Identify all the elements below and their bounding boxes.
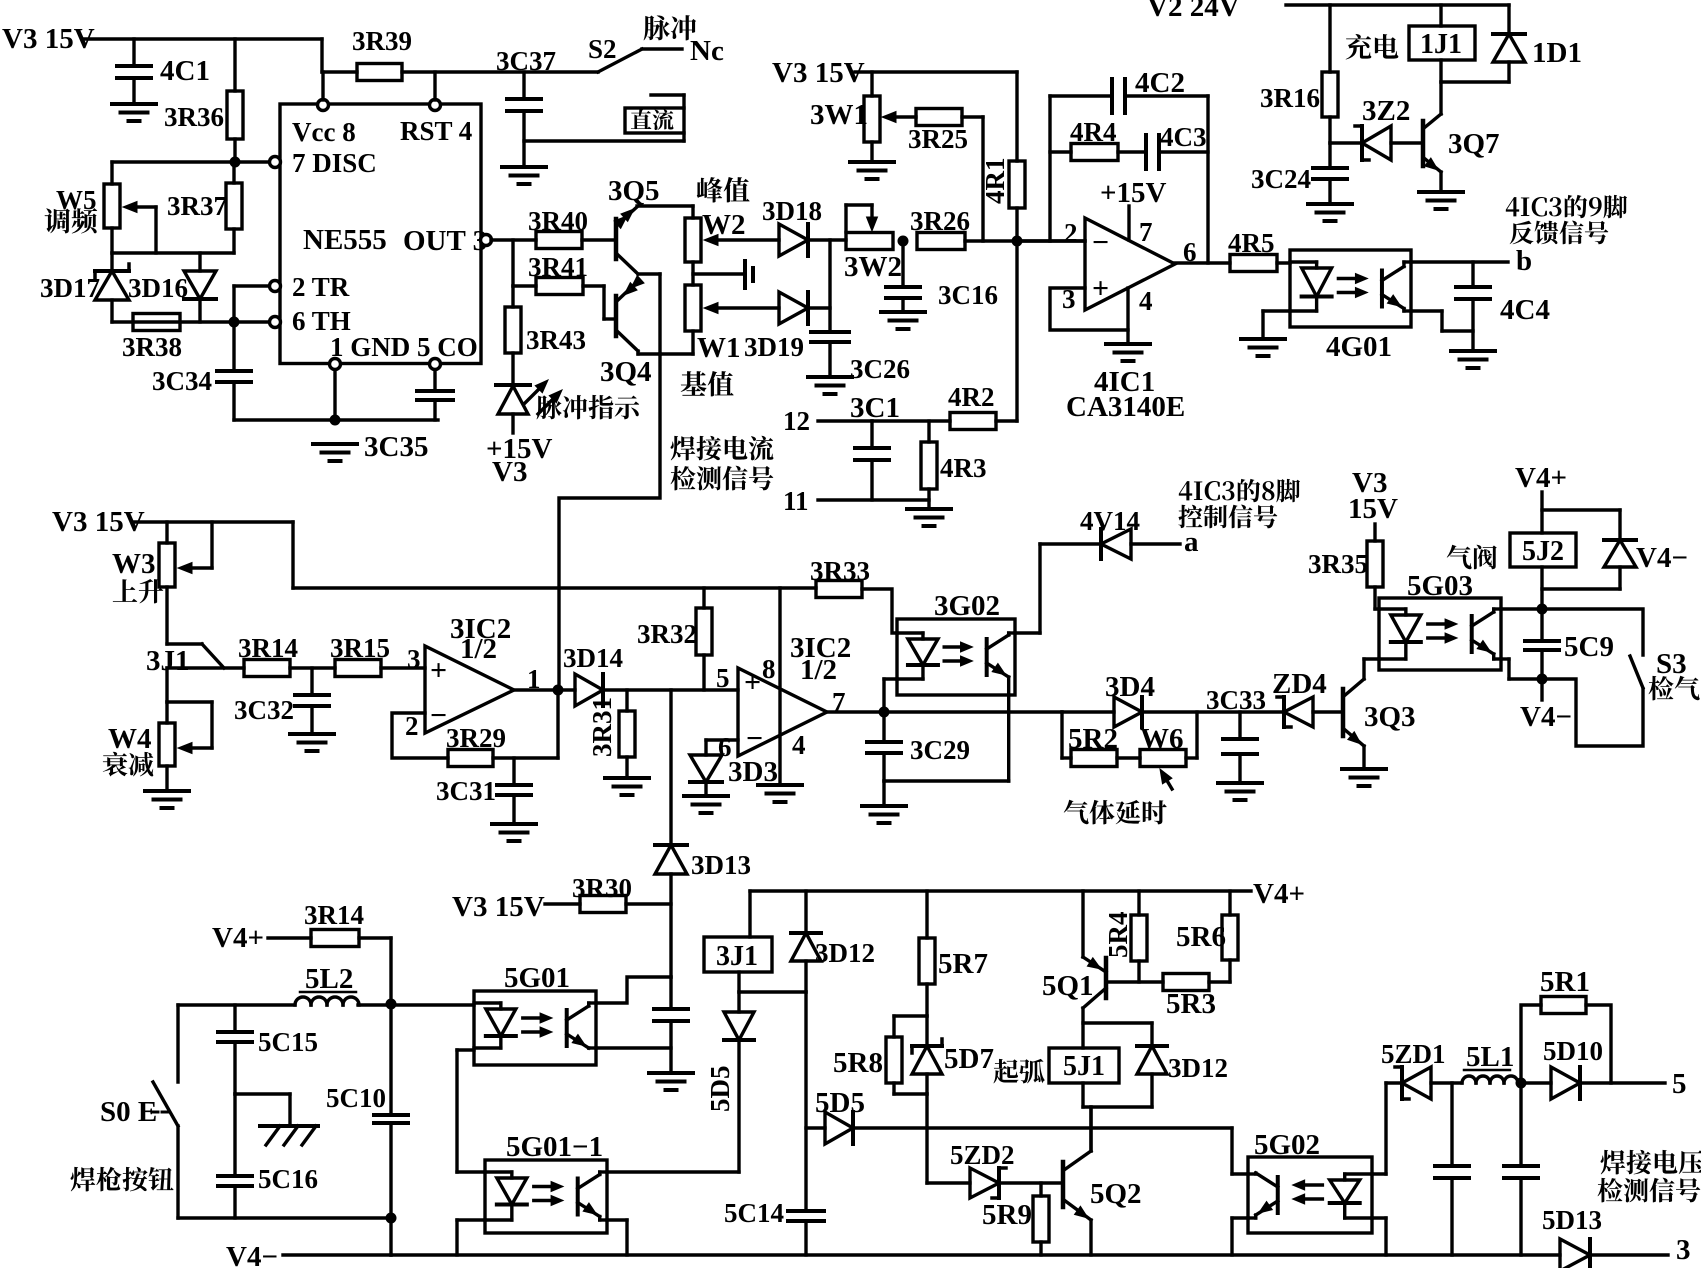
wire 5D13 to terminal 3 <box>1590 1253 1668 1256</box>
label control signal line1 <box>1179 479 1300 502</box>
ground below 3C29 <box>862 806 906 823</box>
wire 12 bus <box>872 419 950 422</box>
node junction TH/3C34 <box>229 317 240 328</box>
transistor 5Q2 <box>1063 1107 1142 1255</box>
feedback right rail <box>1206 96 1209 263</box>
wire 3D4 cathode to 3C33 <box>1142 710 1284 713</box>
transistor 5Q1 (PNP) <box>1042 891 1106 1048</box>
svg-text:3Q7: 3Q7 <box>1448 128 1500 160</box>
wire V3 top rail <box>84 37 322 40</box>
wire 3C29 bottom to 3G02 emitter <box>884 695 1009 781</box>
svg-text:3C26: 3C26 <box>850 354 910 384</box>
svg-text:V4+: V4+ <box>1253 878 1305 910</box>
label welding current line1 <box>671 436 774 461</box>
capacitor 3C33 <box>1206 685 1266 783</box>
ground below 3Q3 <box>1342 769 1386 786</box>
svg-text:4R2: 4R2 <box>948 382 995 412</box>
optocoupler 5G02 <box>1248 1129 1372 1233</box>
svg-text:5C14: 5C14 <box>724 1198 784 1228</box>
svg-text:3R35: 3R35 <box>1308 549 1368 579</box>
wiper arrow W2 <box>704 235 779 246</box>
svg-text:5: 5 <box>716 663 730 693</box>
svg-text:4C2: 4C2 <box>1135 67 1185 99</box>
svg-text:3Q3: 3Q3 <box>1364 701 1416 733</box>
svg-text:OUT 3: OUT 3 <box>403 225 487 257</box>
net label V4+ (gas valve) <box>1515 462 1567 494</box>
label welding gun button <box>71 1167 174 1192</box>
label pulse indicator <box>537 395 640 419</box>
capacitor 3C16 <box>886 241 998 312</box>
svg-text:4R5: 4R5 <box>1228 228 1275 258</box>
svg-text:W1: W1 <box>697 332 741 364</box>
resistor 3R16 <box>1260 5 1338 143</box>
svg-text:3R31: 3R31 <box>587 697 617 757</box>
capacitor 5C14 <box>724 1198 824 1255</box>
net label V3 15V (top-left) <box>2 23 95 55</box>
svg-text:2: 2 <box>405 711 419 741</box>
wire ground bus under NE555 <box>234 418 438 421</box>
ground below 3C32 <box>290 734 334 751</box>
label peak <box>697 177 750 202</box>
svg-text:3D18: 3D18 <box>762 196 822 226</box>
wire 3R41 to 3Q4 base <box>583 286 616 319</box>
ground 3IC2 pin4 <box>758 785 802 802</box>
ground below collector cap <box>649 1073 693 1090</box>
wire 5J2 bottom <box>1540 567 1543 609</box>
capacitor 3C26 <box>811 332 910 384</box>
svg-text:5R4: 5R4 <box>1103 912 1133 959</box>
svg-text:4R3: 4R3 <box>940 453 987 483</box>
potentiometer W3 <box>112 522 212 644</box>
inductor 5L2 <box>295 963 359 1005</box>
diode 5D5 (horizontal) <box>806 1087 865 1144</box>
wire 3D12 line down to 5C14 <box>804 992 807 1211</box>
svg-text:7: 7 <box>1139 217 1153 247</box>
wire 5L2 to 5G01 <box>358 1003 474 1006</box>
capacitor 5C15 <box>218 1005 318 1094</box>
resistor 3R14 (gun) <box>304 900 364 947</box>
net label +15V V3 <box>486 433 553 488</box>
net label V4- (below 5C9) <box>1520 679 1572 733</box>
capacitor 3C37 <box>496 46 556 167</box>
svg-text:CA3140E: CA3140E <box>1066 391 1185 423</box>
svg-text:3: 3 <box>407 644 421 674</box>
ground below 3R31 <box>605 778 649 795</box>
wiper arrow W1 <box>704 303 779 314</box>
flyback diode 3D12 across 5J1 <box>1083 1023 1228 1151</box>
transistor 3Q4 <box>600 276 652 388</box>
svg-text:S3: S3 <box>1656 648 1687 680</box>
label feedback signal line2 <box>1510 221 1609 245</box>
node junction 4C4 <box>1471 262 1474 287</box>
node junction 5C9 bottom <box>1537 674 1548 685</box>
svg-text:3R33: 3R33 <box>810 556 870 586</box>
zener 5D7 <box>912 1016 994 1094</box>
resistor 5R6 <box>1176 891 1238 960</box>
label CA3140E <box>1066 391 1185 423</box>
ground below 4C4 <box>1451 351 1495 368</box>
diode 3D14 <box>563 643 623 706</box>
svg-text:3C37: 3C37 <box>496 46 556 76</box>
node junction bottom <box>386 1213 397 1224</box>
switch S3 loop <box>1542 609 1643 746</box>
svg-text:5G03: 5G03 <box>1407 570 1473 602</box>
svg-text:4R1: 4R1 <box>980 158 1010 205</box>
resistor 3R30 <box>545 873 671 913</box>
LED pulse indicator <box>496 353 562 433</box>
wire TH bus <box>112 320 270 323</box>
wire welding current signal <box>559 354 660 690</box>
wire 3R15 to pin3 <box>381 666 425 669</box>
capacitor 4C4 <box>1456 287 1550 351</box>
wire 3IC2 pin2 feedback loop <box>392 713 448 758</box>
node junction GND pin <box>330 415 341 426</box>
label gas check <box>1649 676 1700 701</box>
resistor 3R41 <box>513 252 588 295</box>
svg-text:V4−: V4− <box>1520 701 1572 733</box>
transistor 3Q3 <box>1343 659 1416 769</box>
svg-text:4V14: 4V14 <box>1080 506 1140 536</box>
svg-text:3D19: 3D19 <box>744 332 804 362</box>
wire 3D18 cathode <box>808 238 846 241</box>
svg-text:5R7: 5R7 <box>938 948 988 980</box>
resistor 3R31 <box>587 690 635 778</box>
label pulse mode <box>644 15 697 40</box>
svg-text:4G01: 4G01 <box>1326 331 1392 363</box>
resistor 5R3 <box>1163 974 1216 1021</box>
wire Vcc stem <box>322 39 357 100</box>
label gas delay <box>1064 800 1167 825</box>
wire 3D19 cathode <box>808 306 830 309</box>
node junction output/current-signal <box>553 685 564 696</box>
wire 3J1 top to rail <box>748 891 751 937</box>
svg-text:W6: W6 <box>1140 723 1184 755</box>
diode 1D1 <box>1493 5 1582 82</box>
net label b <box>1516 245 1532 277</box>
NE555 pin labels <box>292 116 487 362</box>
capacitor on collector node <box>654 977 688 1073</box>
optocoupler 3G02 <box>897 590 1015 695</box>
svg-text:Vcc 8: Vcc 8 <box>292 117 356 147</box>
svg-text:S2: S2 <box>588 34 617 64</box>
wire 5G02 emitter to bottom rail <box>1232 1218 1248 1255</box>
wire 3IC2-2 output <box>827 710 1062 713</box>
wire V3 to W3 area <box>135 520 293 523</box>
parallel branch 5R2 <box>1062 712 1118 767</box>
wire gun top rail <box>178 1003 295 1006</box>
capacitor 4C1 <box>117 39 210 104</box>
resistor 3R35 <box>1308 524 1383 609</box>
ground below 4C1 <box>112 104 156 121</box>
svg-text:5Q1: 5Q1 <box>1042 970 1094 1002</box>
potentiometer W2 <box>685 209 746 262</box>
svg-text:5J1: 5J1 <box>1063 1051 1105 1082</box>
capacitor 3C32 <box>234 668 329 734</box>
svg-text:2: 2 <box>1064 218 1078 248</box>
svg-text:3R29: 3R29 <box>446 723 506 753</box>
svg-text:5C9: 5C9 <box>1564 631 1614 663</box>
svg-text:5R3: 5R3 <box>1166 988 1216 1020</box>
svg-text:V4+: V4+ <box>212 922 264 954</box>
svg-text:3R32: 3R32 <box>637 619 697 649</box>
net label V3 15V (5G03) <box>1348 467 1398 525</box>
potentiometer 3W1 <box>810 72 880 162</box>
wire 3D14 to pin5 <box>603 688 738 691</box>
capacitor 5C9 <box>1525 609 1614 679</box>
wire 5D7 node down to 5ZD2 <box>925 1094 928 1183</box>
wire 3Q4 emitter to W1 bottom <box>638 331 693 354</box>
svg-text:V4−: V4− <box>1636 542 1688 574</box>
svg-text:3D4: 3D4 <box>1105 671 1155 703</box>
svg-text:3Q5: 3Q5 <box>608 175 660 207</box>
wire 5-rail <box>853 1128 1248 1174</box>
wire output to gas delay <box>1062 710 1114 713</box>
label +15V supply <box>1100 177 1167 209</box>
potentiometer W1 <box>685 262 741 364</box>
label base value <box>681 371 734 396</box>
svg-text:3R30: 3R30 <box>572 873 632 903</box>
optocoupler 5G01 <box>474 962 596 1065</box>
svg-text:3R14: 3R14 <box>238 633 298 663</box>
svg-text:3R25: 3R25 <box>908 124 968 154</box>
svg-text:RST 4: RST 4 <box>400 116 472 146</box>
wire pin4 stem <box>1126 288 1129 344</box>
capacitor 4C3 <box>1118 122 1208 169</box>
wire 3R26 to inverting node <box>965 239 1085 242</box>
diode 3D4 <box>1105 671 1155 727</box>
wire pin6 stub <box>706 740 738 755</box>
resistor 3R14 <box>238 633 298 677</box>
svg-text:5G01−1: 5G01−1 <box>506 1131 603 1163</box>
node junction 3W2/3C16 <box>898 236 909 247</box>
ground below 3C26 <box>808 377 852 394</box>
label rise <box>113 579 163 603</box>
wire pin7 stem <box>1127 206 1130 240</box>
diode 5D13 <box>1542 1205 1602 1268</box>
svg-text:3C35: 3C35 <box>364 431 428 463</box>
ground below 3D3 <box>684 796 728 813</box>
svg-text:3W2: 3W2 <box>844 251 902 283</box>
op-amp 3IC2 first half <box>405 613 541 741</box>
capacitor 3C29 <box>867 712 970 781</box>
zener 3Z2 <box>1330 95 1423 160</box>
svg-text:5D7: 5D7 <box>944 1043 994 1075</box>
resistor 3R36 <box>164 39 243 162</box>
wire 3R25 to node <box>962 117 983 241</box>
pin circle Vcc 8 <box>318 100 329 111</box>
svg-text:5C10: 5C10 <box>326 1083 386 1113</box>
svg-text:+15V: +15V <box>1100 177 1167 209</box>
svg-text:7 DISC: 7 DISC <box>292 148 377 178</box>
resistor 4R1 <box>980 72 1025 241</box>
svg-text:4: 4 <box>792 730 806 760</box>
capacitor 3C31 <box>436 758 531 824</box>
wire V3 rail to 4R1 <box>855 70 1017 73</box>
node junction pin7 output <box>879 707 890 718</box>
resistor 4R5 <box>1228 228 1277 272</box>
node junction inverting input <box>1012 236 1023 247</box>
svg-text:3C31: 3C31 <box>436 776 496 806</box>
svg-text:5R6: 5R6 <box>1176 921 1226 953</box>
parallel 5R8 <box>833 1016 927 1094</box>
svg-text:3C29: 3C29 <box>910 735 970 765</box>
svg-text:5L1: 5L1 <box>1466 1041 1514 1073</box>
transistor 3Q5 <box>608 175 660 274</box>
resistor 5R7 <box>919 891 988 1016</box>
wire pin2 input <box>1017 239 1085 242</box>
svg-text:5R2: 5R2 <box>1068 723 1118 755</box>
svg-text:12: 12 <box>783 406 810 436</box>
pin circle RST 4 <box>430 100 441 111</box>
svg-text:11: 11 <box>783 486 809 516</box>
wire ZD4 to 3Q3 base <box>1313 710 1343 713</box>
optocoupler 5G01-1 <box>485 1131 607 1233</box>
wire 3IC2-1 output <box>514 688 575 691</box>
terminal 3 <box>1676 1234 1691 1266</box>
wire DC box bottom <box>524 133 684 141</box>
svg-text:3C24: 3C24 <box>1251 164 1311 194</box>
svg-text:3Q4: 3Q4 <box>600 356 652 388</box>
wire 4R2 to 4R1 node <box>996 241 1017 421</box>
ground below 4G01 LED <box>1241 339 1285 356</box>
potentiometer W6 <box>1117 712 1197 789</box>
wire 5ZD2 to 5Q2 base <box>999 1181 1063 1184</box>
wire V2 rail <box>1286 3 1509 6</box>
wire diode cathode bus down to 3C26 <box>828 240 831 332</box>
wire 4G01 output to b <box>1411 260 1508 263</box>
net label V4+ (bottom left) <box>212 922 264 954</box>
wire 3C29 ground stem <box>882 781 885 806</box>
DC mode box <box>625 95 684 133</box>
svg-text:V4+: V4+ <box>1515 462 1567 494</box>
resistor 4R3 <box>921 421 987 509</box>
svg-text:3C16: 3C16 <box>938 280 998 310</box>
resistor 4R4 <box>1050 117 1118 161</box>
wire 5D10 to terminal 5 <box>1580 1081 1665 1084</box>
pin circle OUT 3 <box>481 235 492 246</box>
net label a <box>1184 526 1199 558</box>
svg-text:V3 15V: V3 15V <box>2 23 95 55</box>
wire 5G01 cathode to 5G01-1 <box>457 1050 485 1172</box>
svg-text:5J2: 5J2 <box>1522 536 1564 567</box>
svg-text:5G02: 5G02 <box>1254 1129 1320 1161</box>
svg-text:−: − <box>746 722 763 755</box>
capacitor filter 2 <box>1504 1083 1538 1255</box>
svg-text:3D17: 3D17 <box>40 273 100 303</box>
svg-text:1/2: 1/2 <box>460 633 497 665</box>
op-amp 3IC2 second half <box>716 632 851 762</box>
diode 3D19 <box>744 292 808 362</box>
wire 3R33 to 3G02 anode <box>862 589 897 633</box>
label feedback signal line1 <box>1506 195 1627 218</box>
node junction 5L2/5C10 <box>386 999 397 1010</box>
label welding voltage line2 <box>1598 1178 1701 1203</box>
svg-text:1J1: 1J1 <box>1420 29 1462 60</box>
label S3 <box>1656 648 1687 680</box>
label W5 function <box>45 208 98 233</box>
svg-text:S0 E: S0 E <box>100 1096 157 1128</box>
svg-text:V3 15V: V3 15V <box>52 506 145 538</box>
svg-text:5C15: 5C15 <box>258 1027 318 1057</box>
resistor 3R32 <box>637 588 712 690</box>
svg-text:3R36: 3R36 <box>164 102 224 132</box>
svg-text:3C34: 3C34 <box>152 366 212 396</box>
transistor 3Q7 <box>1423 82 1500 192</box>
wire 3Q5 collector to W2 top <box>637 206 693 218</box>
terminal 12 <box>783 406 872 436</box>
wire GND pin stem <box>333 369 336 420</box>
capacitor 3C34 <box>152 322 251 420</box>
svg-text:3C33: 3C33 <box>1206 685 1266 715</box>
capacitor 3C24 <box>1251 143 1347 204</box>
bias cell symbol <box>693 261 753 288</box>
terminal 11 wire <box>783 486 929 516</box>
svg-text:3R15: 3R15 <box>330 633 390 663</box>
wire 5G03 emitter to node2 <box>1501 659 1542 679</box>
ground below 3C24 <box>1308 204 1352 221</box>
potentiometer W4 <box>108 702 212 791</box>
diode 3D3 <box>690 755 778 796</box>
net label Nc <box>690 35 724 67</box>
svg-text:3D16: 3D16 <box>128 273 188 303</box>
resistor 3R15 <box>330 633 390 677</box>
wire V4+ to 3R14b <box>268 936 311 939</box>
wire 3R14b down <box>359 938 391 1003</box>
capacitor filter 1 <box>1435 1083 1469 1255</box>
svg-text:5D13: 5D13 <box>1542 1205 1602 1235</box>
ground below 3C16 <box>881 312 925 329</box>
wire 4G01 emitter to 4C4 bottom <box>1411 311 1473 331</box>
svg-text:W3: W3 <box>112 548 156 580</box>
svg-text:5R9: 5R9 <box>982 1199 1032 1231</box>
resistor 3R39 <box>352 26 412 81</box>
wire 5Q1 base bus <box>1106 980 1163 983</box>
label welding current line2 <box>671 466 774 491</box>
wire OUT pin to 3R40 <box>491 238 536 241</box>
wire 5G01 emitter <box>596 1046 671 1049</box>
svg-text:3R14: 3R14 <box>304 900 364 930</box>
potentiometer 3W2 <box>844 205 902 283</box>
resistor 5R1 loop <box>1521 966 1611 1083</box>
wire 3J1 lower contact <box>167 668 244 702</box>
svg-text:3G02: 3G02 <box>934 590 1000 622</box>
ground below 3C31 <box>492 824 536 841</box>
svg-text:3R40: 3R40 <box>528 206 588 236</box>
wire 5G01-1 cathode down <box>457 1220 485 1255</box>
inductor 5L1 <box>1462 1041 1518 1083</box>
svg-text:b: b <box>1516 245 1532 277</box>
relay coil 3J1 (bottom) <box>704 937 772 972</box>
svg-text:8: 8 <box>762 654 776 684</box>
svg-text:3R16: 3R16 <box>1260 83 1320 113</box>
resistor 3R29 <box>446 723 506 767</box>
resistor 3R25 <box>908 109 968 155</box>
svg-text:5ZD1: 5ZD1 <box>1381 1039 1446 1069</box>
pin circle 5 CO <box>430 359 441 370</box>
wire TR loop <box>234 286 270 322</box>
svg-text:4R4: 4R4 <box>1070 117 1117 147</box>
wire 3R29 to output node <box>493 690 558 758</box>
svg-text:W2: W2 <box>702 209 746 241</box>
wire pin3 loop <box>1050 288 1128 330</box>
wire 5G02 LED anode to 5ZD1 <box>1372 1083 1386 1174</box>
wire 4R5 to 4G01 <box>1277 261 1290 264</box>
wire 5G01 collector jog <box>596 977 671 1003</box>
capacitor 3C35 <box>364 369 453 463</box>
zener ZD4 <box>1272 668 1327 727</box>
svg-text:3R37: 3R37 <box>167 191 227 221</box>
wire 1J1 bottom / 1D1 anode <box>1441 60 1509 82</box>
